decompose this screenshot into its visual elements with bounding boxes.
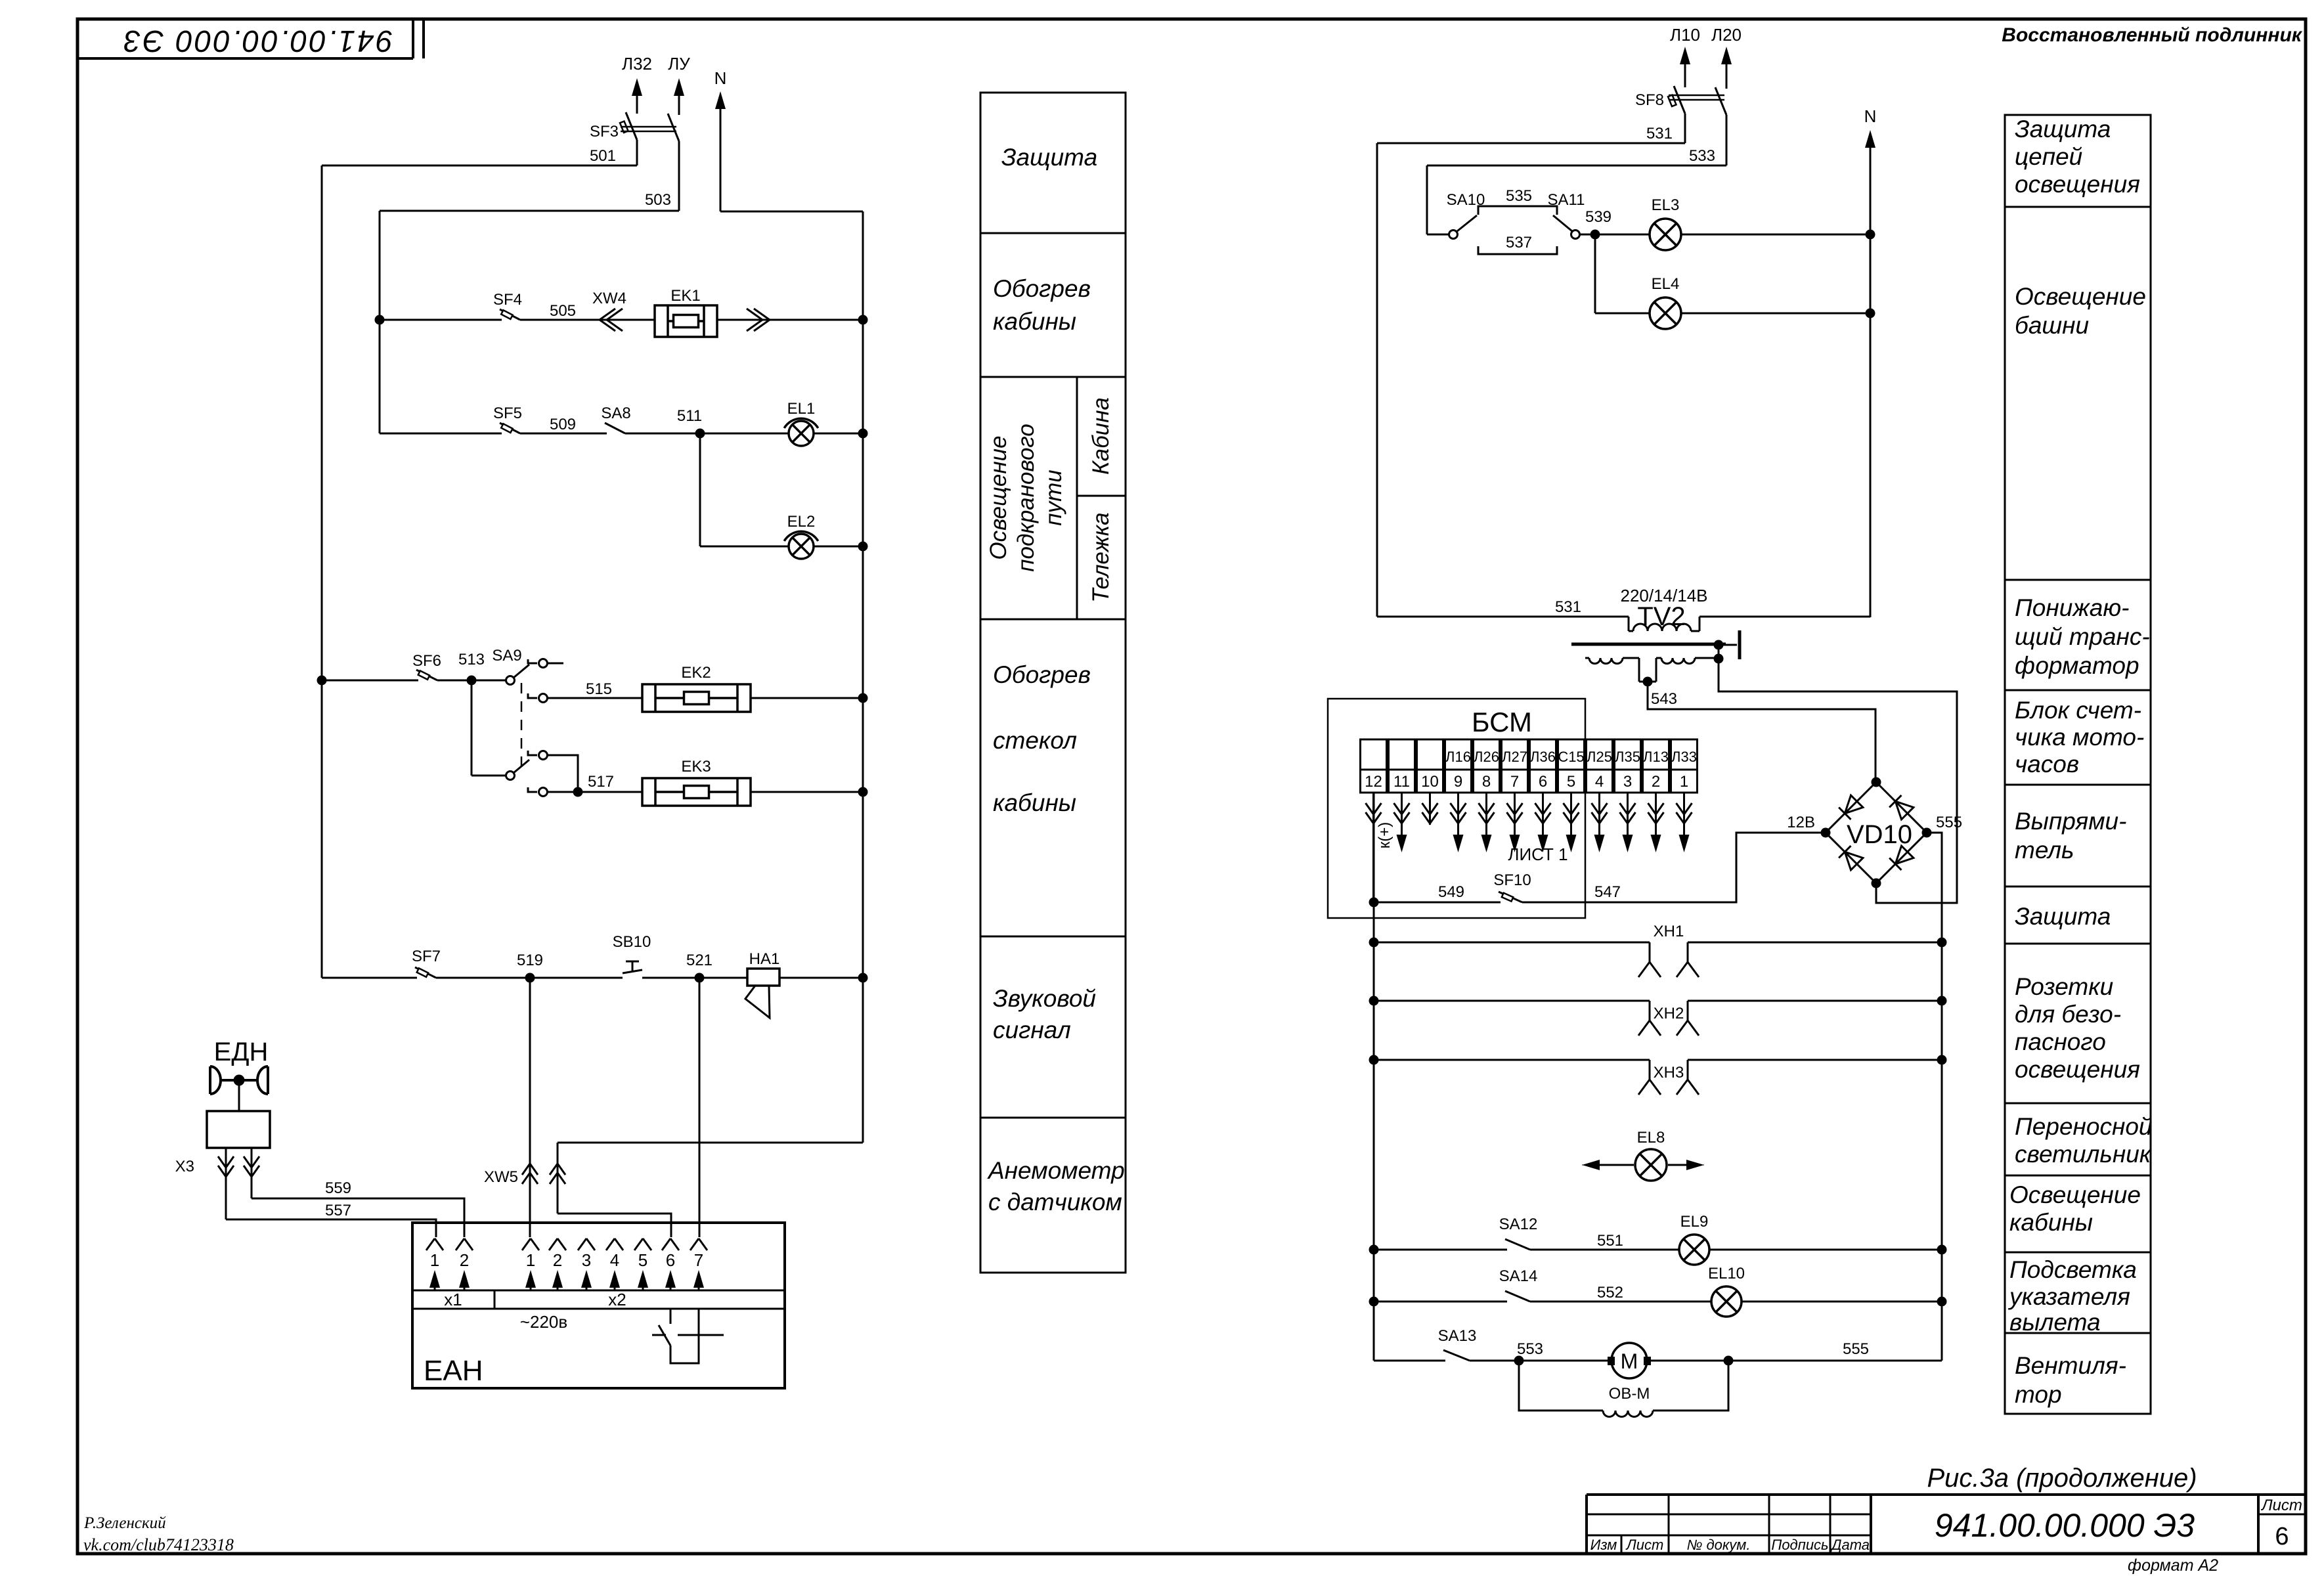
svg-text:Л26: Л26 [1474, 749, 1499, 765]
wire 555 down [1927, 833, 1942, 942]
svg-text:531: 531 [1555, 598, 1581, 616]
transformer TV2 secondary left [1585, 658, 1648, 682]
legend Анемометр с датчиком [987, 1157, 1125, 1215]
svg-text:4: 4 [610, 1250, 619, 1270]
label ЛИСТ 1 [1508, 844, 1568, 864]
node 553 [1514, 1340, 1544, 1366]
node EK2-rail [858, 693, 868, 703]
svg-text:EK1: EK1 [670, 287, 700, 305]
svg-text:ЕАН: ЕАН [424, 1355, 483, 1387]
svg-text:освещения: освещения [2015, 171, 2140, 198]
svg-text:БСМ: БСМ [1472, 707, 1532, 737]
wire secondary return [1719, 659, 1957, 903]
switch SA9 throw wire 515 [528, 693, 548, 703]
wire 12В to 547 [1524, 833, 1826, 902]
stamp box top-left [77, 19, 424, 58]
svg-text:5: 5 [1567, 773, 1575, 791]
node EL3-N [1866, 230, 1875, 240]
wire left rail x490 [321, 165, 323, 978]
svg-text:светильник: светильник [2015, 1141, 2152, 1168]
wire rail x578 [379, 211, 381, 433]
svg-text:для безо-: для безо- [2015, 1001, 2121, 1028]
svg-text:503: 503 [645, 191, 671, 209]
connector XW5 second [550, 1164, 565, 1184]
switch SA10 [1427, 191, 1485, 239]
svg-text:XH1: XH1 [1654, 923, 1684, 940]
svg-text:2: 2 [460, 1250, 469, 1270]
svg-text:vk.com/club74123318: vk.com/club74123318 [83, 1535, 234, 1554]
svg-text:пасного: пасного [2015, 1028, 2106, 1055]
rectifier VD10 diamond [1826, 782, 1927, 883]
svg-text:HA1: HA1 [749, 950, 780, 968]
lamp EL3 [1650, 196, 1681, 250]
svg-text:Дата: Дата [1830, 1537, 1870, 1553]
diode VD10 bottom-left [1839, 846, 1863, 870]
label ~220в [520, 1312, 567, 1332]
socket XH2 [1369, 996, 1947, 1036]
svg-text:SA9: SA9 [492, 647, 521, 665]
connector XW4 [592, 290, 626, 331]
wire 535 [1478, 187, 1557, 215]
svg-text:указателя: указателя [2007, 1283, 2130, 1310]
svg-text:Понижаю-: Понижаю- [2015, 594, 2130, 621]
box БСМ frame [1328, 699, 1585, 918]
legend Освещение кабины [2009, 1181, 2141, 1236]
wire 531 to TV2 [1377, 598, 1629, 617]
node 539 [1585, 208, 1611, 240]
svg-text:вылета: вылета [2009, 1309, 2101, 1336]
legend Розетки для безопасного освещения [2015, 973, 2140, 1083]
svg-text:Защита: Защита [1001, 144, 1097, 171]
svg-text:кабины: кабины [993, 308, 1076, 335]
wire 503 [380, 191, 679, 211]
legend Тележка (rotated) [1088, 512, 1114, 602]
node VD10 top [1872, 777, 1881, 787]
net ЛУ arrow [668, 54, 690, 115]
node VD10 555 [1922, 814, 1963, 838]
wire 505 [520, 302, 655, 320]
svg-text:9: 9 [1454, 773, 1462, 791]
wire 509 [520, 416, 607, 433]
svg-text:551: 551 [1597, 1232, 1623, 1250]
svg-text:EL2: EL2 [787, 513, 816, 531]
node EK3-rail [858, 787, 868, 797]
svg-text:Л10: Л10 [1670, 25, 1700, 45]
svg-text:8: 8 [1482, 773, 1491, 791]
wire SF4 row left [380, 319, 502, 321]
svg-text:Обогрев: Обогрев [993, 275, 1091, 302]
wire N to XW5 [558, 1143, 863, 1214]
wire SA12 row [1374, 1249, 1507, 1251]
legend Блок счетчика моточасов [2015, 697, 2144, 777]
svg-text:Анемометр: Анемометр [987, 1157, 1125, 1184]
svg-text:SF6: SF6 [412, 652, 441, 670]
svg-text:2: 2 [1652, 773, 1660, 791]
svg-text:XW5: XW5 [484, 1168, 518, 1186]
node EL10-rail [1937, 1297, 1947, 1307]
svg-text:509: 509 [550, 416, 576, 433]
svg-text:EK3: EK3 [681, 758, 711, 776]
box ЕАН anemometer unit [412, 1223, 785, 1388]
wire 551 [1530, 1232, 1678, 1250]
wire SF7 row left [322, 977, 417, 979]
legend Обогрев стекол кабины [993, 661, 1091, 816]
node EL9-rail [1937, 1245, 1947, 1255]
svg-text:EL4: EL4 [1652, 275, 1680, 293]
lamp EL8 [1582, 1129, 1704, 1181]
node 519 [517, 952, 543, 983]
node EL1-rail [858, 429, 868, 439]
net Л32 arrow [622, 54, 652, 114]
svg-text:Выпрями-: Выпрями- [2015, 808, 2126, 835]
wire 511 [625, 433, 789, 435]
svg-text:x2: x2 [608, 1290, 626, 1309]
title block labels [1590, 1537, 1870, 1553]
switch SA9 lower throw lower [528, 787, 578, 797]
legend Обогрев кабины [993, 275, 1091, 335]
node HA1-rail [858, 973, 868, 983]
svg-text:Тележка: Тележка [1088, 512, 1114, 602]
wire left rail x2092 [1373, 793, 1375, 1361]
node 511 [677, 407, 705, 439]
svg-text:547: 547 [1594, 883, 1621, 901]
lamp EL10 [1708, 1265, 1745, 1317]
svg-text:№ докум.: № докум. [1687, 1537, 1751, 1553]
svg-text:SF4: SF4 [493, 291, 522, 309]
breaker SF3 [590, 112, 679, 211]
socket XH3 [1369, 1055, 1947, 1095]
wire 557 [226, 1202, 436, 1237]
motor M [1608, 1343, 1651, 1378]
svg-text:Звуковой: Звуковой [993, 985, 1096, 1012]
svg-text:ОВ-М: ОВ-М [1609, 1385, 1650, 1403]
node 513 [458, 651, 485, 686]
svg-text:535: 535 [1506, 187, 1532, 205]
lamp EL4 [1650, 275, 1681, 329]
heater EK2 [642, 664, 751, 712]
svg-text:537: 537 [1506, 234, 1532, 252]
svg-text:X3: X3 [175, 1158, 194, 1175]
svg-text:521: 521 [686, 952, 713, 969]
label TV2 [1637, 602, 1685, 631]
svg-text:EL3: EL3 [1652, 196, 1680, 214]
svg-text:SF8: SF8 [1635, 91, 1664, 109]
connector pins ЕАН [426, 1238, 707, 1290]
switch inside ЕАН [652, 1309, 724, 1363]
node 549 [1369, 898, 1379, 908]
svg-text:Л35: Л35 [1615, 749, 1640, 765]
svg-text:часов: часов [2015, 751, 2079, 777]
svg-text:Розетки: Розетки [2015, 973, 2113, 1000]
svg-text:549: 549 [1438, 883, 1464, 901]
svg-text:Л33: Л33 [1671, 749, 1697, 765]
svg-text:6: 6 [1539, 773, 1547, 791]
svg-text:3: 3 [582, 1250, 591, 1270]
wire EK2 to rail [751, 697, 863, 699]
svg-text:VD10: VD10 [1847, 820, 1912, 849]
breaker SF6 [412, 652, 441, 680]
svg-text:SF5: SF5 [493, 405, 522, 422]
svg-text:Лист: Лист [2260, 1497, 2302, 1514]
svg-text:EL8: EL8 [1637, 1129, 1665, 1147]
legend Переносной светильник [2015, 1113, 2153, 1168]
node SA14-left [1369, 1297, 1379, 1307]
svg-text:Защита: Защита [2015, 903, 2111, 930]
node EL4-N [1866, 309, 1875, 318]
svg-text:Подсветка: Подсветка [2009, 1256, 2137, 1283]
legend right column boxes [2005, 115, 2151, 1414]
wire EL9 to rail [1709, 1249, 1942, 1251]
svg-text:Освещение: Освещение [2015, 283, 2146, 310]
wire 519 [436, 977, 623, 979]
svg-text:формат А2: формат А2 [2128, 1556, 2218, 1575]
wire 531 left rail [1376, 143, 1378, 617]
svg-text:стекол: стекол [993, 727, 1077, 754]
connector X3 [175, 1148, 259, 1219]
connector XW5 [484, 1164, 538, 1186]
wire SF6 row left [322, 680, 418, 682]
svg-text:EL9: EL9 [1680, 1213, 1709, 1231]
svg-text:2: 2 [553, 1250, 562, 1270]
signature line2 [83, 1535, 234, 1554]
box ЕДН body [207, 1111, 270, 1148]
terminal numbers БСМ [1365, 773, 1688, 791]
svg-text:ЕДН: ЕДН [214, 1038, 269, 1066]
svg-text:подкранового: подкранового [1013, 424, 1039, 572]
wire SA13 row left [1374, 1302, 1445, 1361]
wire 555 row [1651, 1340, 1942, 1361]
svg-text:к(+): к(+) [1376, 822, 1393, 849]
wire 543 [1648, 682, 1875, 782]
switch SA8 [601, 405, 630, 433]
diode VD10 top-right [1889, 795, 1914, 820]
label БСМ [1472, 707, 1532, 737]
wire 531 top [1377, 125, 1685, 143]
svg-text:555: 555 [1936, 814, 1962, 831]
label ЕДН [214, 1038, 269, 1066]
svg-text:12В: 12В [1787, 814, 1815, 831]
wire EL4 to N [1681, 313, 1870, 315]
title block doc number [1935, 1507, 2195, 1544]
breaker SF4 [493, 291, 522, 320]
switch SA9 lower common [471, 680, 529, 780]
node EL2-rail [858, 542, 868, 552]
legend Защита цепей освещения [2015, 116, 2140, 198]
svg-text:ЛУ: ЛУ [668, 54, 690, 74]
node SA12-left [1369, 1245, 1379, 1255]
svg-text:SA14: SA14 [1499, 1267, 1538, 1285]
svg-text:SF3: SF3 [590, 123, 619, 141]
wire 539 down to EL4 [1595, 234, 1650, 313]
wire 511 down to EL2 [700, 433, 789, 546]
svg-text:505: 505 [550, 302, 576, 320]
terminal strip x1 x2 [412, 1290, 785, 1309]
label Рис.3а (продолжение) [1927, 1464, 2197, 1493]
node TV2 secondary right upper [1714, 640, 1724, 650]
wire 549 [1374, 883, 1501, 902]
stamp text 941.00.00.000 Э3 (rotated 180) [122, 24, 393, 58]
svg-text:5: 5 [638, 1250, 647, 1270]
svg-text:Переносной: Переносной [2015, 1113, 2153, 1140]
button SB10 [613, 933, 651, 973]
svg-text:515: 515 [586, 680, 612, 698]
svg-text:M: M [1621, 1349, 1638, 1373]
switch SA9 common upper [492, 647, 529, 685]
node rail-SF6 [317, 676, 327, 686]
svg-text:EL10: EL10 [1708, 1265, 1745, 1282]
svg-text:с датчиком: с датчиком [988, 1189, 1122, 1215]
svg-text:тор: тор [2015, 1381, 2062, 1408]
node ОВ-М right [1724, 1356, 1734, 1366]
svg-text:SA11: SA11 [1548, 191, 1585, 209]
svg-text:3: 3 [1623, 773, 1632, 791]
diode VD10 top-left [1839, 795, 1863, 820]
breaker SF10 [1493, 871, 1531, 902]
terminal strip БСМ [1361, 739, 1698, 793]
transformer TV2 secondary right [1648, 658, 1717, 682]
socket XH1 [1369, 923, 1947, 977]
connector out of EK1 [717, 309, 863, 331]
node 517 [573, 773, 615, 797]
wire 515 [548, 680, 642, 698]
svg-text:559: 559 [325, 1179, 351, 1197]
svg-text:941.00.00.000 Э3: 941.00.00.000 Э3 [122, 24, 393, 58]
svg-text:517: 517 [588, 773, 614, 791]
breaker SF5 [493, 405, 522, 433]
node rail-SF4 [375, 315, 385, 325]
svg-text:Л13: Л13 [1643, 749, 1669, 765]
wire 521 [642, 977, 747, 979]
svg-text:1: 1 [430, 1250, 439, 1270]
sounder HA1 [745, 950, 779, 1018]
wire 501 [322, 147, 637, 165]
title block lines [1587, 1495, 2306, 1554]
wire 547 [1522, 883, 1736, 902]
wire EL2 to rail [814, 546, 863, 548]
svg-text:Р.Зеленский: Р.Зеленский [83, 1514, 166, 1532]
legend Защита (right) [2015, 903, 2111, 930]
svg-text:543: 543 [1651, 690, 1677, 708]
node VD10 bottom [1872, 879, 1881, 888]
legend Выпрямитель [2015, 808, 2126, 864]
label к(+) [1376, 822, 1393, 849]
net N arrow (right) [1864, 106, 1877, 617]
svg-text:553: 553 [1517, 1340, 1543, 1358]
svg-text:XW4: XW4 [592, 290, 626, 307]
svg-text:519: 519 [517, 952, 543, 969]
svg-text:Восстановленный подлинник: Восстановленный подлинник [2002, 24, 2303, 46]
svg-text:сигнал: сигнал [993, 1017, 1071, 1043]
svg-text:EL1: EL1 [787, 400, 816, 418]
svg-text:Изм: Изм [1590, 1537, 1617, 1553]
title block Лист [2260, 1497, 2302, 1514]
wire EL1 to rail [814, 433, 863, 435]
svg-text:Подпись: Подпись [1771, 1537, 1828, 1553]
wire 517 to EK3 [578, 791, 642, 793]
node TV2 center tap [1643, 677, 1653, 687]
legend middle column boxes [980, 93, 1126, 1273]
switch SA9 throw upper stub [528, 659, 563, 668]
svg-text:пути: пути [1041, 470, 1066, 525]
legend Освещение башни [2015, 283, 2146, 339]
switch SA11 [1548, 191, 1591, 239]
svg-text:Рис.3а (продолжение): Рис.3а (продолжение) [1927, 1464, 2197, 1493]
svg-text:Вентиля-: Вентиля- [2015, 1352, 2126, 1379]
svg-text:N: N [1864, 106, 1877, 126]
switch SA13 [1438, 1327, 1477, 1361]
svg-text:Освещение: Освещение [986, 435, 1011, 559]
label ЕАН [424, 1355, 483, 1387]
svg-text:4: 4 [1595, 773, 1604, 791]
svg-text:557: 557 [325, 1202, 351, 1219]
svg-text:1: 1 [526, 1250, 535, 1270]
svg-text:Кабина: Кабина [1088, 397, 1114, 475]
wire TV2 to N rail [1699, 616, 1870, 618]
terminal labels БСМ top [1445, 749, 1697, 765]
svg-text:Л20: Л20 [1711, 25, 1742, 45]
wire 521 down [699, 978, 701, 1237]
wire SA14 row [1374, 1301, 1507, 1303]
breaker SF7 [412, 948, 441, 978]
connector arrows БСМ columns [1366, 793, 1692, 902]
svg-text:тель: тель [2015, 837, 2074, 864]
wire N top run [720, 211, 863, 213]
lamp EL2 [784, 513, 818, 559]
svg-text:12: 12 [1365, 773, 1382, 791]
svg-text:1: 1 [1680, 773, 1688, 791]
net Л10 arrow [1670, 25, 1700, 64]
transformer TV2 primary [1629, 617, 1699, 631]
wire XW5 jog to pin6 [558, 1214, 671, 1237]
legend Подсветка указателя вылета [2007, 1256, 2137, 1336]
node 521 [686, 952, 713, 983]
wire 537 [1478, 234, 1557, 254]
wire right rail x1314 [862, 211, 864, 1143]
lamp EL9 [1679, 1213, 1709, 1265]
svg-text:Блок счет-: Блок счет- [2015, 697, 2141, 724]
legend Освещение подкранового пути (rotated) [986, 424, 1066, 572]
svg-text:башни: башни [2015, 312, 2089, 339]
node TV2 secondary right lower [1714, 645, 1724, 664]
switch SA12 [1499, 1215, 1538, 1250]
wire to node 513 [437, 680, 506, 682]
wire 553 [1470, 1360, 1608, 1362]
label 220/14/14В [1620, 586, 1707, 605]
chassis connection TV2 [1719, 630, 1740, 659]
wire SF5 row left [380, 433, 502, 435]
svg-text:кабины: кабины [2009, 1209, 2093, 1236]
label Восстановленный подлинник [2002, 24, 2303, 46]
wire 552 [1530, 1284, 1711, 1302]
legend Кабина (rotated) [1088, 397, 1114, 475]
svg-text:6: 6 [2275, 1523, 2289, 1550]
wire HA1 to rail [779, 977, 863, 979]
svg-text:чика мото-: чика мото- [2015, 724, 2144, 751]
svg-text:539: 539 [1585, 208, 1611, 226]
svg-text:Освещение: Освещение [2009, 1181, 2141, 1208]
svg-text:цепей: цепей [2015, 143, 2082, 170]
svg-text:~220в: ~220в [520, 1312, 567, 1332]
heater EK3 [642, 758, 751, 806]
svg-text:531: 531 [1646, 125, 1673, 142]
svg-text:10: 10 [1421, 773, 1439, 791]
svg-text:Л36: Л36 [1530, 749, 1556, 765]
svg-text:533: 533 [1689, 147, 1715, 165]
legend Звуковой сигнал [993, 985, 1096, 1043]
svg-text:N: N [714, 68, 727, 88]
svg-text:EK2: EK2 [681, 664, 711, 682]
wire EL10 to rail [1742, 1301, 1942, 1303]
